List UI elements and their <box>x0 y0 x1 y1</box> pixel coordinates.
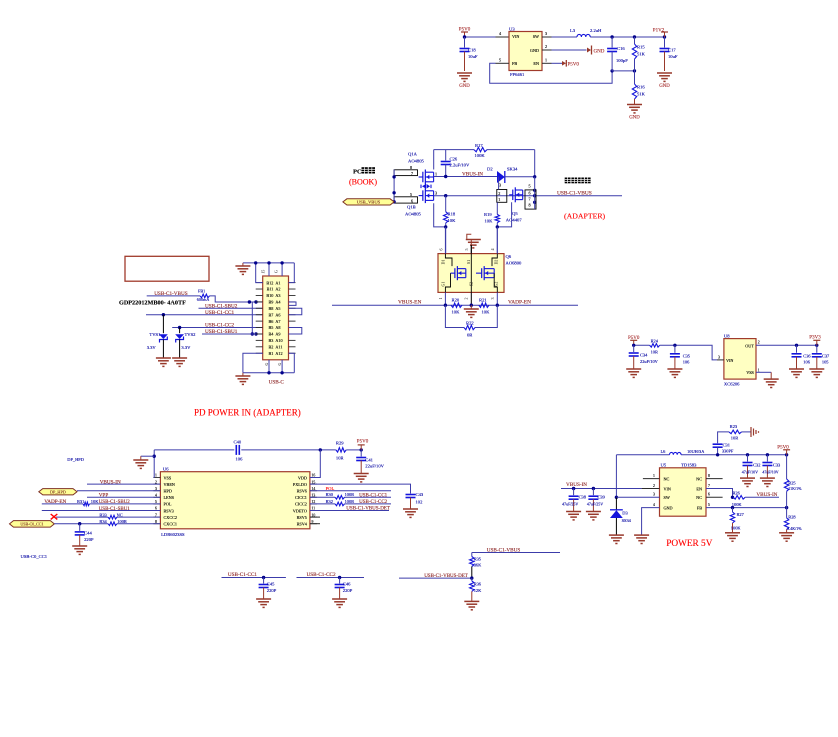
svg-text:USB-C1-SBU2: USB-C1-SBU2 <box>99 500 131 505</box>
svg-text:10uF: 10uF <box>468 54 478 59</box>
svg-text:D2: D2 <box>487 167 493 172</box>
power flag P5V0 (input of U3) <box>459 28 471 38</box>
svg-text:5: 5 <box>708 503 710 507</box>
resistor R32 100R <box>326 499 355 506</box>
svg-text:LDR6023SS: LDR6023SS <box>161 532 185 537</box>
svg-text:USB-C: USB-C <box>269 380 285 386</box>
net label USB-C1-SBU1 at U6 <box>99 507 131 512</box>
svg-text:VSS: VSS <box>164 475 172 480</box>
svg-text:P3V3: P3V3 <box>809 336 821 341</box>
svg-text:RSV6: RSV6 <box>297 489 307 494</box>
svg-text:C39: C39 <box>598 495 606 500</box>
wire USB-C1-VBUS top <box>472 553 560 557</box>
svg-text:U6: U6 <box>163 467 169 472</box>
power flag P5V0 at U8 <box>628 336 640 346</box>
svg-text:R25: R25 <box>788 480 796 485</box>
svg-text:AO4805: AO4805 <box>405 212 422 217</box>
capacitor C46 220P <box>335 578 353 600</box>
net label USB-C1-VBUS-DET bottom <box>424 574 468 579</box>
resistor R22 0R loop <box>445 305 497 337</box>
net label VBUS-IN <box>462 171 483 177</box>
svg-text:5: 5 <box>464 249 469 251</box>
svg-text:0R: 0R <box>467 333 473 338</box>
svg-text:330PF: 330PF <box>722 448 734 453</box>
tvs diode TVS2 3.3V <box>175 328 196 359</box>
svg-text:3: 3 <box>718 356 720 360</box>
svg-text:U8: U8 <box>724 334 730 339</box>
ground below U5 GND pin <box>634 535 649 543</box>
resistor R16 51K <box>632 71 645 105</box>
resistor R31 10K <box>77 499 99 506</box>
svg-text:47uF/25V: 47uF/25V <box>587 502 603 507</box>
svg-text:10R: 10R <box>731 436 738 441</box>
svg-text:LENS: LENS <box>164 495 175 500</box>
svg-text:B3: B3 <box>269 338 274 343</box>
resistor R36 12K <box>470 578 482 601</box>
ground at U6 VSS <box>133 456 148 468</box>
wire CC2 stub bottom <box>297 576 365 579</box>
empty annotation box <box>125 256 209 281</box>
svg-text:8: 8 <box>708 474 710 478</box>
svg-text:6: 6 <box>529 191 531 196</box>
svg-text:R23: R23 <box>730 424 738 429</box>
svg-text:A8: A8 <box>275 325 280 330</box>
wire CC2 to pin B5 <box>172 326 263 329</box>
pin stub U3 pin 2 GND <box>542 44 552 50</box>
wire FB feedback loop <box>490 63 614 83</box>
svg-text:C36: C36 <box>803 353 811 358</box>
svg-text:USB-C1-CC1: USB-C1-CC1 <box>359 493 388 498</box>
svg-text:1: 1 <box>438 298 443 300</box>
wire U6 PXLDO to C43 <box>310 484 411 493</box>
ground below R27 <box>725 533 740 541</box>
svg-text:P1V2: P1V2 <box>653 29 665 34</box>
chip U5 TD1583 body <box>660 463 707 517</box>
pin stub U3 pin 1 EN <box>542 58 552 64</box>
connector J5 USB-C body <box>261 270 289 360</box>
wire DP_HPD to U6 HPD <box>77 490 160 492</box>
svg-text:100R: 100R <box>345 499 355 504</box>
svg-text:XC6206: XC6206 <box>724 381 740 386</box>
svg-text:G: G <box>264 362 269 365</box>
capacitor C33 47uF/10V <box>762 455 781 478</box>
wire U6 RSV3 row <box>42 510 161 512</box>
svg-text:VADP-EN: VADP-EN <box>44 499 66 505</box>
svg-text:GDP22012MB00- 4A0TF: GDP22012MB00- 4A0TF <box>119 299 186 306</box>
Q6 pin 6 top wire <box>439 227 446 254</box>
svg-text:VBUS-IN: VBUS-IN <box>566 482 587 488</box>
svg-text:3: 3 <box>653 493 655 497</box>
svg-text:RSV4: RSV4 <box>297 522 308 527</box>
svg-text:POWER 5V: POWER 5V <box>666 539 713 549</box>
svg-text:100R: 100R <box>117 519 127 524</box>
svg-text:A11: A11 <box>275 345 282 350</box>
svg-text:NC: NC <box>664 476 670 481</box>
svg-text:VBUS-EN: VBUS-EN <box>398 299 421 305</box>
capacitor C31 330PF <box>713 442 734 454</box>
wire D2 cathode to right vertical <box>505 175 537 178</box>
svg-text:R36: R36 <box>474 581 482 586</box>
svg-text:EN: EN <box>696 486 702 491</box>
wire U5 EN to R26 <box>706 484 734 499</box>
wire Q1 gate link <box>434 203 448 228</box>
svg-text:Q1B: Q1B <box>407 205 416 210</box>
wire U6 CICC2 row <box>310 503 391 505</box>
capacitor C37 105 <box>812 345 830 369</box>
ground below EN bus <box>464 305 479 317</box>
svg-text:100K: 100K <box>475 153 486 158</box>
svg-text:8: 8 <box>529 203 531 208</box>
no-connect X red <box>51 514 58 519</box>
svg-text:2: 2 <box>758 341 760 345</box>
capacitor C45 220P <box>259 578 277 600</box>
svg-text:R20: R20 <box>452 298 460 303</box>
ground below C41 <box>354 474 369 482</box>
ground below TVS1 <box>156 358 171 366</box>
svg-text:102: 102 <box>416 500 424 505</box>
chip U8 XC6206 body <box>724 334 756 387</box>
floating label DP_HPD <box>67 457 84 462</box>
net label USB-C1-CC2 <box>205 323 235 329</box>
svg-text:R35: R35 <box>474 556 482 561</box>
svg-text:R32: R32 <box>326 499 333 504</box>
svg-text:1: 1 <box>758 369 760 373</box>
svg-text:B9: B9 <box>269 300 274 305</box>
floating label USB-C0_CC1 <box>21 554 48 559</box>
net label USB-C1-CC1 at U6 <box>359 493 388 498</box>
svg-text:C46: C46 <box>343 582 351 587</box>
capacitor C38 47uF/25V <box>562 489 587 512</box>
svg-text:R33: R33 <box>99 512 107 517</box>
ground below C37 <box>809 369 824 377</box>
net label VBUS-IN at U5 <box>566 482 587 488</box>
resistor R33 NC <box>99 512 122 519</box>
svg-text:4: 4 <box>490 249 495 251</box>
resistor R26 100K <box>732 490 745 507</box>
svg-text:NC: NC <box>117 512 123 517</box>
svg-text:C41: C41 <box>365 458 373 463</box>
svg-text:FP6461: FP6461 <box>510 72 525 77</box>
ground below C32 <box>740 478 755 486</box>
svg-text:1: 1 <box>155 474 157 478</box>
svg-text:CICC1: CICC1 <box>295 495 307 500</box>
svg-text:S1: S1 <box>466 260 471 264</box>
svg-text:L3: L3 <box>570 28 576 33</box>
svg-text:P5V0: P5V0 <box>459 28 471 33</box>
port DP_HPD <box>39 489 77 495</box>
svg-text:5: 5 <box>499 58 501 63</box>
net label VPP <box>99 493 109 499</box>
ground below U8 VSS <box>764 379 779 387</box>
wire U6 CXCC2 row <box>56 516 160 518</box>
svg-text:VIN: VIN <box>726 358 733 363</box>
transistor Q1B AO4805 <box>405 188 437 216</box>
capacitor C34 22uF/10V <box>629 345 659 369</box>
wire vertical B9 to B4 <box>251 302 258 336</box>
wire VBUS to FB1 <box>147 295 200 297</box>
svg-text:1: 1 <box>653 474 655 478</box>
svg-text:G1: G1 <box>441 282 446 287</box>
resistor R24 10R <box>650 338 660 354</box>
svg-text:VIN: VIN <box>512 34 519 39</box>
svg-text:10R: 10R <box>651 350 658 355</box>
ground below R28 <box>779 533 794 541</box>
svg-text:12K: 12K <box>474 588 482 593</box>
svg-text:PD POWER IN (ADAPTER): PD POWER IN (ADAPTER) <box>194 408 301 418</box>
svg-text:D3: D3 <box>622 511 628 516</box>
Q6 pin 5 top wire <box>464 245 471 254</box>
svg-text:GND: GND <box>664 505 673 510</box>
svg-text:USB-C1-CC2: USB-C1-CC2 <box>359 500 388 505</box>
svg-text:SW: SW <box>664 495 670 500</box>
svg-text:Q6: Q6 <box>506 254 512 259</box>
wire R29 to P5V0 node <box>346 448 363 451</box>
ground bottom of J5 <box>235 373 250 385</box>
wire output rail of U5 <box>616 453 788 456</box>
capacitor C26 2.2uF/10V <box>441 150 470 177</box>
wire P5V0 to R24 <box>632 344 650 347</box>
ground middle above Q6 <box>466 234 481 253</box>
svg-text:L6: L6 <box>661 449 667 454</box>
svg-text:600mA: 600mA <box>197 297 210 302</box>
svg-text:7: 7 <box>411 171 413 176</box>
power arrow P5V0 at EN <box>562 60 579 68</box>
svg-text:B8: B8 <box>269 306 274 311</box>
net label USB-C1-VBUS on bus <box>557 190 592 196</box>
resistor R27 100K <box>730 508 744 533</box>
svg-text:220P: 220P <box>343 588 353 593</box>
ground below C18 <box>457 73 472 89</box>
svg-text:2: 2 <box>653 484 655 488</box>
svg-text:47uF/10V: 47uF/10V <box>742 469 758 474</box>
svg-text:CXCC2: CXCC2 <box>164 515 178 520</box>
svg-text:3.4K/1%: 3.4K/1% <box>787 526 802 531</box>
net label USB-C1-CC1 bottom <box>228 572 258 578</box>
chip U6 LDR6023SS body <box>160 467 310 538</box>
svg-text:NC: NC <box>696 476 702 481</box>
connector J5 pin names <box>266 280 282 356</box>
svg-text:USB_VBUS: USB_VBUS <box>357 200 381 205</box>
svg-text:VDD: VDD <box>298 475 307 480</box>
svg-text:TD1583: TD1583 <box>681 463 697 468</box>
wire R17 top rail <box>434 150 535 177</box>
svg-text:5: 5 <box>529 183 531 188</box>
svg-text:VBUS-IN: VBUS-IN <box>462 171 483 177</box>
svg-text:RSV3: RSV3 <box>164 508 174 513</box>
svg-text:DP_HPD: DP_HPD <box>67 457 84 462</box>
wire J5 top ground rail <box>243 261 294 282</box>
svg-text:DP_HPD: DP_HPD <box>50 490 66 495</box>
svg-text:47uF/10V: 47uF/10V <box>762 469 778 474</box>
pin stub U3 pin 4 VIN <box>496 31 510 37</box>
ground below C35 <box>667 369 682 377</box>
ground below C43 <box>403 509 418 517</box>
svg-text:USB-C0_CC1: USB-C0_CC1 <box>20 522 43 527</box>
svg-text:AO4407: AO4407 <box>506 218 523 223</box>
svg-text:USB-C1-VBUS-DET: USB-C1-VBUS-DET <box>346 507 390 512</box>
U5 pin8 NC stub <box>706 474 723 479</box>
power flag P1V2 output <box>653 29 668 38</box>
ground rotated right of R23 <box>751 427 759 437</box>
svg-text:POL: POL <box>326 486 335 491</box>
label charger head chinese <box>565 178 591 184</box>
svg-text:EN: EN <box>533 61 539 66</box>
svg-text:P5V0: P5V0 <box>568 63 580 68</box>
svg-text:SW: SW <box>533 34 539 39</box>
svg-text:VBUS-IN: VBUS-IN <box>756 492 777 498</box>
wire SW to rail vertical <box>616 493 659 498</box>
ferrite bead FB1 600mA <box>197 289 210 303</box>
ground below C44 <box>72 546 87 554</box>
svg-text:10K: 10K <box>482 310 491 315</box>
svg-text:3: 3 <box>499 183 501 188</box>
chip U6 pin names <box>164 475 308 526</box>
net label USB-C1-CC2 bottom <box>307 572 337 578</box>
capacitor C18 10uF <box>460 37 478 71</box>
svg-text:FB1: FB1 <box>198 289 205 294</box>
Q6 internal mosfet right <box>466 254 499 293</box>
wire U6 POL row VADP-EN <box>42 503 161 505</box>
resistor R17 100K <box>474 143 487 158</box>
capacitor C35 106 <box>670 345 691 369</box>
svg-text:USB-C1-SBU1: USB-C1-SBU1 <box>99 507 131 512</box>
Q6 pin 4 top wire <box>490 227 497 254</box>
ground below C17 <box>657 73 672 89</box>
svg-text:VIN: VIN <box>664 486 671 491</box>
svg-text:R15: R15 <box>637 45 645 50</box>
svg-text:R17: R17 <box>475 143 483 148</box>
wire VBUS-EN VADP-EN bus <box>332 304 578 307</box>
wire U5 FB row <box>706 503 788 509</box>
net label USB-C1-CC1 <box>205 310 235 316</box>
wire U5 GND pin to ground <box>642 503 660 535</box>
svg-text:OUT: OUT <box>745 343 754 348</box>
pin stub U8 VIN 3 <box>717 356 724 360</box>
pin box Q5 pins 2 1 <box>497 177 507 203</box>
pin stub U3 pin 5 FB <box>496 58 510 64</box>
svg-text:B2: B2 <box>269 345 274 350</box>
svg-text:36K: 36K <box>474 563 482 568</box>
diode D2 SK34 <box>487 167 518 184</box>
power flag P3V3 <box>809 336 821 346</box>
svg-text:A12: A12 <box>275 351 282 356</box>
svg-text:GND: GND <box>459 84 470 89</box>
wire C16 bottom to R15 bottom <box>612 69 636 72</box>
ground below R16 <box>627 105 642 121</box>
svg-text:7: 7 <box>708 484 710 488</box>
ground below C36 <box>789 369 804 377</box>
svg-text:R31: R31 <box>77 499 84 504</box>
net label USB-C1-VBUS-DET at U6 <box>346 507 390 512</box>
svg-text:G: G <box>277 362 282 365</box>
resistor R34 100R <box>99 519 126 526</box>
svg-text:VPP: VPP <box>99 493 109 499</box>
wire EN to P5V0 arrow <box>552 62 565 64</box>
svg-text:C16: C16 <box>617 46 625 51</box>
wire USB-C0_CC1 to U6 CXCC1 <box>54 522 160 525</box>
pin box Q5 pins 5-8 <box>525 177 536 209</box>
svg-text:220P: 220P <box>267 588 277 593</box>
power flag P5V0 output of U5 <box>777 445 790 455</box>
wire J5 bottom ground rail <box>243 353 294 374</box>
wire U6 LENS row <box>87 496 160 498</box>
label PD POWER IN ADAPTER <box>194 408 301 418</box>
net label VADP-EN <box>508 299 531 305</box>
svg-text:VADP-EN: VADP-EN <box>508 299 531 305</box>
svg-text:B6: B6 <box>269 319 274 324</box>
svg-text:3.3V: 3.3V <box>147 345 157 350</box>
svg-text:B7: B7 <box>269 312 274 317</box>
svg-text:A10: A10 <box>275 338 282 343</box>
wire C31 to R23 <box>718 432 751 443</box>
svg-text:1: 1 <box>498 197 500 202</box>
svg-text:VDETO: VDETO <box>293 508 307 513</box>
svg-text:R28: R28 <box>788 515 796 520</box>
svg-text:R21: R21 <box>479 298 487 303</box>
svg-text:TVS2: TVS2 <box>185 332 197 337</box>
svg-text:CICC2: CICC2 <box>295 502 307 507</box>
label USB-C <box>269 380 285 386</box>
svg-text:Q5: Q5 <box>512 211 518 216</box>
resistor R29 10R <box>336 441 346 461</box>
svg-text:U5: U5 <box>661 463 667 468</box>
ground top of J5 <box>235 263 250 275</box>
svg-text:PXLDO: PXLDO <box>293 482 307 487</box>
label BOOK red <box>349 177 377 186</box>
svg-text:HPD: HPD <box>164 489 172 494</box>
svg-text:C17: C17 <box>668 48 676 53</box>
svg-text:D1: D1 <box>441 260 446 265</box>
wire SBU2 to pin B8 <box>199 307 263 309</box>
net label VBUS-EN <box>398 299 421 305</box>
capacitor C43 102 <box>406 492 424 509</box>
pin box Q1B pins 5 6 <box>394 192 417 203</box>
resistor R35 36K <box>470 556 482 578</box>
wire A4 hook <box>289 302 297 305</box>
svg-text:C18: C18 <box>468 48 476 53</box>
svg-text:VBEN: VBEN <box>164 482 175 487</box>
resistor R28 3.4K/1% <box>784 508 802 533</box>
svg-text:10UH/3A: 10UH/3A <box>687 449 705 454</box>
wire U8 VSS to ground <box>756 369 771 380</box>
svg-text:A4: A4 <box>275 300 281 305</box>
svg-text:10K: 10K <box>448 218 457 223</box>
ground below C38 <box>566 512 581 520</box>
U6 RSV5 RSV4 stubs <box>310 517 320 524</box>
wire U6 VDETO row <box>310 510 389 512</box>
svg-text:R34: R34 <box>99 519 107 524</box>
wire C40 to R29 <box>241 448 336 451</box>
svg-text:10R: 10R <box>336 456 345 461</box>
body diodes between Q1A Q1B <box>421 184 431 189</box>
svg-text:8: 8 <box>410 165 412 170</box>
svg-text:2.2uF/10V: 2.2uF/10V <box>450 163 470 168</box>
svg-text:G: G <box>274 270 279 273</box>
wire vertical left of Q1 pair <box>392 170 395 204</box>
svg-text:FB: FB <box>697 505 702 510</box>
transistor Q5 AO4407 <box>506 187 523 222</box>
resistor R23 10R <box>729 424 742 441</box>
capacitor C16 100pF <box>607 37 628 71</box>
svg-text:A9: A9 <box>275 332 280 337</box>
chip U6 pin stubs <box>153 474 317 524</box>
svg-text:4: 4 <box>653 503 655 507</box>
svg-text:B12: B12 <box>266 280 273 285</box>
connector J5 pin stubs <box>256 283 296 354</box>
label PC connector chinese <box>353 167 375 175</box>
svg-text:USB-C0_CC1: USB-C0_CC1 <box>21 554 48 559</box>
svg-text:22uF/10V: 22uF/10V <box>640 359 659 364</box>
